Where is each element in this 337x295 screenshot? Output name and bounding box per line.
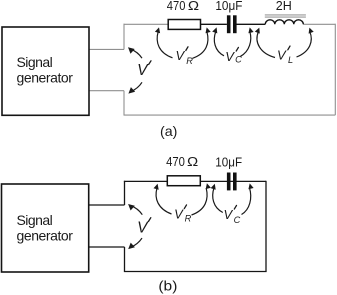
svg-text:C: C [235,55,242,65]
svg-text:(b): (b) [158,278,177,294]
svg-text:10μF: 10μF [215,0,242,13]
svg-text:470: 470 [167,0,186,13]
svg-text:R: R [185,214,192,224]
svg-text:R: R [186,56,193,66]
svg-text:(a): (a) [160,123,177,139]
svg-text:V: V [225,49,235,64]
svg-text:C: C [234,215,241,225]
svg-text:Ω: Ω [187,154,199,169]
svg-text:Signal: Signal [17,212,53,228]
svg-text:470: 470 [166,154,185,169]
svg-text:V: V [224,207,234,222]
svg-text:V: V [277,47,287,62]
svg-text:generator: generator [17,228,74,244]
svg-text:generator: generator [17,70,74,86]
svg-text:V: V [137,220,149,237]
svg-text:V: V [137,62,149,79]
svg-text:Ω: Ω [188,0,200,13]
svg-text:10μF: 10μF [215,154,242,169]
svg-text:Signal: Signal [17,54,53,70]
svg-text:V: V [176,48,186,63]
svg-text:V: V [174,207,184,222]
svg-text:L: L [288,55,293,65]
svg-text:2H: 2H [276,0,292,13]
